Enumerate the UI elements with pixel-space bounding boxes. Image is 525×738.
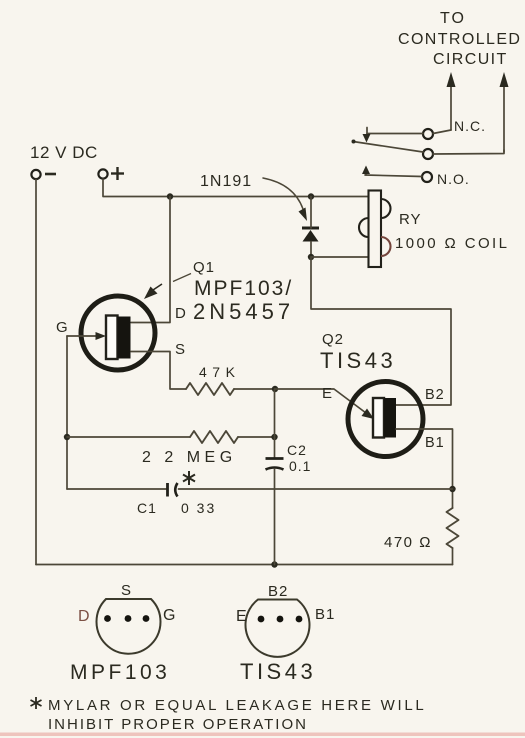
wire C2 down to bottom rail bbox=[274, 469, 276, 565]
wire Q1 source to 47K bbox=[131, 352, 186, 390]
svg-text:B1: B1 bbox=[425, 435, 445, 451]
arrow to controlled circuit (left, from N.C.) bbox=[447, 72, 456, 130]
wire diode to bottom junction bbox=[310, 242, 312, 258]
svg-text:D: D bbox=[78, 608, 90, 625]
junction gate rail / 2.2MEG bbox=[64, 434, 70, 440]
leader from Q1 label to case bbox=[144, 274, 191, 300]
resistor 47K bbox=[186, 383, 234, 395]
transistor Q1 case circle bbox=[81, 296, 155, 370]
diode 1N191 anode triangle bbox=[303, 230, 319, 242]
asterisk mark at C1 bbox=[183, 471, 195, 485]
svg-text:TIS43: TIS43 bbox=[240, 659, 316, 684]
wire +rail down to Q1 drain bbox=[131, 197, 170, 323]
wire 47K to junction bbox=[234, 388, 275, 390]
svg-text:E: E bbox=[236, 608, 247, 625]
svg-text:TIS43: TIS43 bbox=[320, 348, 396, 373]
wire bottom rail bbox=[36, 564, 453, 566]
capacitor C1 right plate bbox=[175, 483, 177, 497]
junction bottom rail / C2 branch bbox=[271, 561, 277, 567]
wire C1 left section bbox=[67, 488, 166, 490]
bottom scan streak bbox=[0, 733, 525, 737]
relay coil loop top right bbox=[381, 199, 391, 218]
svg-text:1N191: 1N191 bbox=[200, 173, 252, 190]
svg-text:C1: C1 bbox=[137, 500, 157, 516]
wire common circle to right up-arrow bbox=[433, 150, 504, 154]
plus sign bbox=[111, 167, 124, 180]
wire N.C. circle to up-arrow bbox=[433, 130, 451, 134]
junction +rail / Q1 drain branch bbox=[167, 193, 173, 199]
wire timing node down through C2 bbox=[274, 389, 276, 458]
Q1 channel bar solid bbox=[118, 317, 131, 359]
junction B1 rail / C1 wire bbox=[449, 486, 455, 492]
minus sign bbox=[45, 173, 56, 176]
junction 2.2MEG / C2 node bbox=[271, 434, 277, 440]
svg-text:B2: B2 bbox=[268, 583, 288, 600]
relay contact N.C. terminal circle bbox=[423, 129, 433, 139]
footnote line 1 bbox=[31, 697, 427, 714]
junction diode / relay bottom bbox=[308, 254, 314, 260]
svg-text:N.O.: N.O. bbox=[437, 171, 470, 187]
svg-text:MYLAR OR EQUAL LEAKAGE HERE WI: MYLAR OR EQUAL LEAKAGE HERE WILL bbox=[48, 697, 426, 714]
svg-text:INHIBIT PROPER OPERATION: INHIBIT PROPER OPERATION bbox=[48, 716, 308, 733]
relay coil loop middle left bbox=[359, 218, 369, 237]
pinout TIS43 case outline bbox=[246, 600, 310, 657]
capacitor C1 left plate bbox=[166, 483, 169, 497]
svg-text:TO: TO bbox=[440, 10, 466, 27]
Q1 gate wire with arrow bbox=[67, 332, 106, 340]
wire junction to Q2 emitter with arrow bbox=[275, 389, 374, 419]
wire 470 ohm to bottom rail bbox=[452, 548, 454, 565]
svg-text:B1: B1 bbox=[315, 606, 335, 623]
svg-text:G: G bbox=[56, 319, 69, 336]
svg-text:B2: B2 bbox=[425, 387, 445, 403]
relay coil loop bottom right bbox=[381, 237, 391, 256]
Q2 emitter bar outline bbox=[373, 398, 384, 438]
svg-text:N.C.: N.C. bbox=[454, 118, 486, 134]
relay contact N.O. terminal circle bbox=[422, 172, 432, 182]
svg-text:0.1: 0.1 bbox=[289, 458, 311, 474]
Q1 gate bar outline bbox=[106, 316, 118, 360]
svg-text:C2: C2 bbox=[287, 442, 307, 458]
wire 2.2MEG to junction bbox=[238, 436, 275, 438]
wire relay bottom bbox=[311, 256, 369, 258]
arrow to controlled circuit (right, from common) bbox=[500, 72, 509, 152]
svg-text:MPF103: MPF103 bbox=[70, 661, 170, 684]
wire plus terminal to +rail bbox=[103, 179, 369, 197]
wire C1 right section bbox=[179, 488, 453, 490]
svg-text:2 2 MEG: 2 2 MEG bbox=[142, 449, 237, 466]
battery minus terminal bbox=[31, 170, 40, 179]
wire gate node down left bbox=[66, 336, 68, 489]
svg-text:0 33: 0 33 bbox=[181, 500, 216, 516]
N.O. stationary contact line with up arrow bbox=[362, 166, 422, 177]
resistor 2.2 MEG bbox=[190, 431, 238, 443]
svg-text:D: D bbox=[175, 305, 187, 322]
svg-text:CIRCUIT: CIRCUIT bbox=[433, 51, 508, 68]
resistor 470 ohm bbox=[447, 508, 459, 548]
relay RY coil body bbox=[369, 191, 382, 268]
junction 47K / emitter / timing node bbox=[272, 386, 278, 392]
svg-text:2N5457: 2N5457 bbox=[193, 299, 294, 324]
wire Q2 B1 down right side bbox=[396, 429, 453, 508]
junction +rail / diode branch bbox=[308, 193, 314, 199]
svg-text:Q2: Q2 bbox=[322, 331, 344, 348]
capacitor C2 top plate bbox=[266, 457, 284, 460]
relay contact common (armature) terminal circle bbox=[423, 149, 433, 159]
armature blade bbox=[352, 140, 424, 153]
svg-text:S: S bbox=[175, 341, 186, 358]
N.C. stationary contact line with down arrow bbox=[363, 128, 424, 143]
wire to 2.2MEG bbox=[67, 436, 190, 438]
capacitor C2 bottom plate bbox=[266, 468, 284, 470]
battery plus terminal bbox=[98, 169, 107, 178]
transistor Q2 case circle bbox=[348, 382, 423, 457]
svg-text:MPF103/: MPF103/ bbox=[194, 277, 293, 300]
wire diode junction down to B2 rail bbox=[311, 257, 451, 405]
wire +rail to diode bbox=[310, 197, 312, 229]
Q2 base bar solid bbox=[384, 398, 396, 438]
svg-text:CONTROLLED: CONTROLLED bbox=[398, 31, 521, 48]
svg-text:1000 Ω COIL: 1000 Ω COIL bbox=[395, 235, 509, 252]
svg-text:RY: RY bbox=[399, 211, 422, 228]
leader arrow from 1N191 to diode bbox=[263, 178, 307, 221]
text TO CONTROLLED CIRCUIT bbox=[398, 10, 521, 68]
svg-text:470 Ω: 470 Ω bbox=[384, 534, 432, 551]
wire minus terminal down left side bbox=[35, 180, 37, 565]
diode 1N191 cathode bar bbox=[302, 227, 319, 230]
svg-text:S: S bbox=[121, 582, 132, 599]
pinout MPF103 case outline bbox=[96, 599, 160, 654]
svg-text:12 V DC: 12 V DC bbox=[30, 143, 98, 162]
svg-text:Q1: Q1 bbox=[193, 259, 215, 276]
pinout TIS43 lead dots bbox=[258, 616, 303, 623]
pinout MPF103 lead dots bbox=[104, 615, 149, 622]
svg-text:E: E bbox=[322, 385, 333, 402]
svg-text:G: G bbox=[163, 607, 175, 624]
svg-text:47K: 47K bbox=[199, 364, 240, 380]
